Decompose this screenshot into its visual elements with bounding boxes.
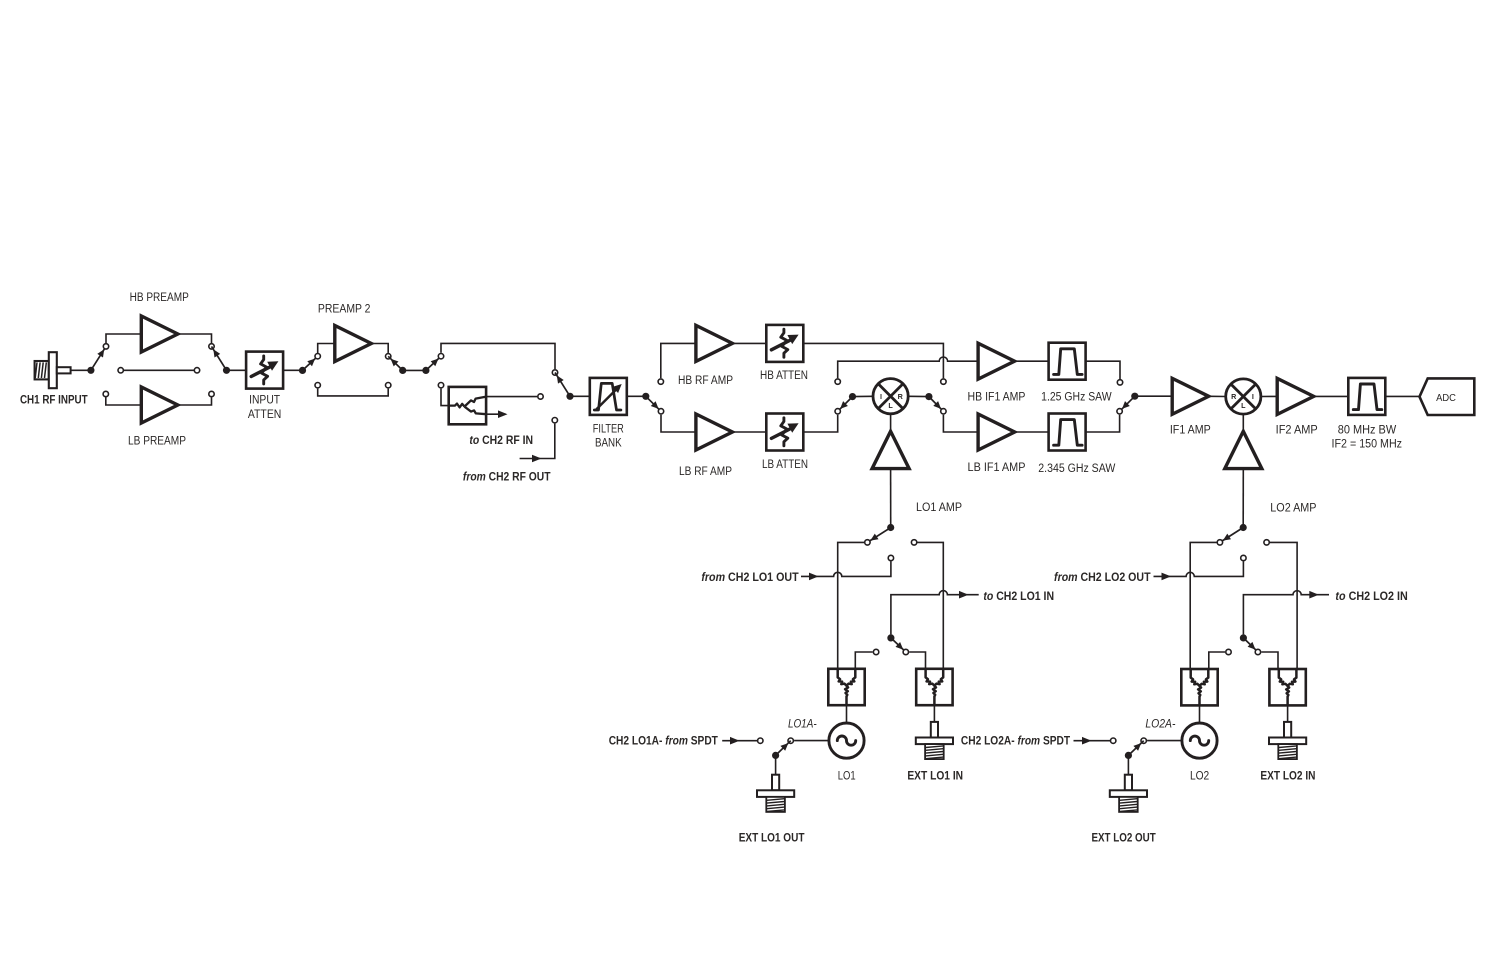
wire SW15 to S3 right port — [1209, 652, 1225, 669]
switch SW15 throw S4 — [1255, 649, 1260, 654]
amplifier LO2 AMP — [1225, 431, 1262, 468]
label 1.25 GHz SAW — [1041, 392, 1112, 404]
wire J14 to EXT LO1 OUT — [775, 755, 777, 775]
node J13 — [887, 634, 905, 652]
amplifier LO1 AMP — [872, 431, 909, 468]
wire IF2 AMP to IF2 filter — [1314, 395, 1348, 397]
wire MIX1 L port — [890, 414, 892, 432]
wire IF2 filter to ADC — [1385, 395, 1420, 397]
wire HB IF line to HB IF1 AMP — [838, 357, 979, 378]
svg-text:LB ATTEN: LB ATTEN — [762, 459, 808, 471]
node J3 — [299, 356, 318, 374]
wire top route to SW6 — [441, 343, 555, 369]
connector EXT LO2 OUT — [1110, 775, 1147, 812]
label FILTER BANK line1 — [593, 423, 624, 435]
wire coupler tap to CH2 RF IN — [486, 410, 507, 418]
label from CH2 LO1 OUT — [701, 572, 798, 584]
switch SW10 throw HB — [1117, 380, 1122, 385]
connector EXT LO1 OUT — [757, 775, 794, 812]
wire LB RF AMP to LB ATTEN — [732, 431, 766, 433]
label EXT LO1 IN — [907, 770, 963, 782]
label to CH2 LO1 IN — [983, 591, 1054, 603]
svg-text:CH2 LO1A- from SPDT: CH2 LO1A- from SPDT — [609, 736, 718, 748]
node J7 — [642, 393, 661, 412]
filter 1.25 GHz SAW — [1049, 343, 1086, 380]
wire SW1 bypass middle — [121, 369, 197, 371]
svg-text:from CH2 RF OUT: from CH2 RF OUT — [463, 471, 551, 483]
svg-text:INPUT: INPUT — [249, 394, 280, 406]
wire HB PREAMP output — [178, 334, 212, 343]
label CH2 LO2A- from SPDT — [961, 736, 1070, 748]
wire LB IF1 AMP to SAW2 — [1014, 431, 1049, 433]
wire to LB RF AMP — [661, 415, 696, 432]
wire J11 to IF1 AMP — [1135, 395, 1173, 397]
amplifier HB IF1 AMP — [978, 343, 1015, 379]
switch SW1 throw bypass — [118, 368, 123, 373]
mixer MIX1 — [873, 379, 908, 414]
svg-text:to CH2 LO2 IN: to CH2 LO2 IN — [1335, 591, 1407, 603]
wire SW15 to S4 left port — [1261, 652, 1278, 669]
switch SW13 throw CH2 — [758, 738, 763, 743]
label LB ATTEN — [762, 459, 808, 471]
svg-text:to CH2 RF IN: to CH2 RF IN — [469, 435, 533, 447]
node J5 — [422, 356, 441, 374]
svg-text:HB ATTEN: HB ATTEN — [760, 370, 808, 382]
switch SW1 throw HB — [103, 344, 108, 349]
svg-text:LB RF AMP: LB RF AMP — [679, 466, 732, 478]
svg-text:from CH2 LO2 OUT: from CH2 LO2 OUT — [1054, 572, 1151, 584]
wire SW11 to splitter S2 — [918, 542, 944, 669]
wire J6 to FILTER BANK — [570, 395, 590, 397]
svg-text:ADC: ADC — [1436, 393, 1456, 404]
switch SW14 throw CH2 — [1241, 555, 1246, 560]
switch SW12 throw S2 — [903, 649, 908, 654]
svg-text:L: L — [888, 401, 893, 410]
wire INPUT ATTEN to J3 — [283, 369, 302, 371]
wire HB ATTEN to mixer bypass — [803, 343, 943, 378]
switch SW3 bypass throw left — [315, 383, 320, 388]
wire PREAMP 2 output — [371, 344, 388, 353]
switch SW8 throw HB — [835, 379, 840, 384]
node J2 — [212, 346, 231, 374]
wire to HB RF AMP — [661, 343, 696, 378]
wire CH1 input to node J1 — [71, 369, 88, 371]
svg-text:IF2 = 150 MHz: IF2 = 150 MHz — [1332, 438, 1403, 450]
connector CH1 RF INPUT — [35, 352, 71, 388]
wire SAW1 to SW10 — [1085, 361, 1120, 379]
label CH1 RF INPUT — [20, 394, 88, 406]
label IF1 AMP — [1170, 425, 1211, 437]
splitter S3 — [1181, 669, 1217, 705]
wire FILTER BANK to J7 — [627, 395, 646, 397]
attenuator LB ATTEN — [766, 414, 803, 451]
switch SW5 throw coupler — [438, 383, 443, 388]
svg-text:I: I — [880, 392, 882, 401]
wire HB RF AMP to HB ATTEN — [732, 342, 766, 344]
node J12 — [1220, 524, 1247, 543]
node J9 — [925, 393, 943, 411]
node J16 — [1125, 741, 1144, 759]
switch SW13 throw LO1 — [788, 738, 793, 743]
wire from CH2 LO2 OUT — [1154, 561, 1244, 580]
wire SW9 to LB IF1 AMP — [943, 415, 978, 432]
node J8 — [838, 393, 856, 411]
switch SW16 throw CH2 — [1111, 738, 1116, 743]
label HB ATTEN — [760, 370, 808, 382]
switch SW16 throw LO2 — [1141, 738, 1146, 743]
wire PREAMP 2 bypass — [318, 389, 389, 396]
switch SW8 throw LB — [835, 409, 840, 414]
switch SW14 throw out — [1264, 540, 1269, 545]
svg-text:LO1: LO1 — [838, 770, 856, 782]
wire coupler top output — [486, 396, 537, 398]
wire S2 to EXT LO1 IN — [933, 705, 935, 722]
svg-text:80 MHz BW: 80 MHz BW — [1338, 424, 1397, 436]
svg-text:LO2 AMP: LO2 AMP — [1270, 502, 1317, 514]
oscillator LO1 — [829, 723, 864, 758]
wire SW12 to S1 right port — [855, 652, 872, 669]
wire CH2 LO1A- from SPDT — [722, 737, 760, 745]
svg-text:EXT LO1 IN: EXT LO1 IN — [907, 770, 963, 782]
label to CH2 RF IN — [469, 435, 533, 447]
svg-text:R: R — [1231, 392, 1237, 401]
switch SW15 throw S3 — [1226, 649, 1231, 654]
svg-text:HB IF1 AMP: HB IF1 AMP — [968, 392, 1026, 404]
svg-text:ATTEN: ATTEN — [248, 409, 282, 421]
label HB PREAMP — [130, 292, 189, 304]
node J11 — [1120, 393, 1139, 412]
node J10 — [867, 524, 894, 543]
node J15 — [1240, 634, 1258, 652]
wire LO1 to SW13 — [794, 740, 829, 742]
svg-text:1.25 GHz SAW: 1.25 GHz SAW — [1041, 392, 1112, 404]
svg-text:EXT LO1 OUT: EXT LO1 OUT — [739, 833, 805, 845]
wire IF1 AMP to MIX2 — [1209, 395, 1226, 397]
node J14 — [772, 741, 791, 759]
wire LO2 AMP to J12 — [1242, 469, 1244, 524]
svg-text:FILTER: FILTER — [593, 423, 624, 435]
wire LB ATTEN to SW8 — [803, 415, 838, 432]
amplifier LB IF1 AMP — [978, 414, 1015, 450]
switch SW6 throw CH2-return — [552, 418, 557, 423]
wire J8 to mixer MIX1 — [853, 395, 874, 397]
switch SW3 throw amp-in — [315, 354, 320, 359]
wire SW5 to coupler — [441, 389, 449, 406]
wire SW14 to splitter S3 — [1190, 542, 1216, 669]
svg-text:L: L — [1241, 401, 1246, 410]
svg-text:EXT LO2 IN: EXT LO2 IN — [1260, 771, 1315, 783]
label EXT LO1 OUT — [739, 833, 805, 845]
label LO2 AMP — [1270, 502, 1317, 514]
wire to PREAMP 2 input — [318, 344, 336, 357]
amplifier HB PREAMP — [141, 316, 178, 352]
switch SW7 throw HB — [658, 379, 663, 384]
switch SW4 throw amp-out — [386, 354, 391, 359]
connector EXT LO1 IN — [916, 722, 953, 759]
wire HB IF1 AMP to SAW1 — [1014, 360, 1049, 362]
svg-text:BANK: BANK — [595, 438, 622, 450]
switch SW2 throw bypass — [194, 368, 199, 373]
splitter S1 — [828, 669, 864, 705]
switch SW11 throw out — [911, 540, 916, 545]
attenuator HB ATTEN — [766, 325, 803, 362]
attenuator INPUT ATTEN — [246, 352, 283, 389]
wire J2 to INPUT ATTEN — [227, 369, 247, 371]
filter 80 MHz BW IF2 — [1348, 378, 1385, 415]
wire MIX2 L port — [1242, 414, 1244, 432]
label LO1 AMP — [916, 502, 962, 514]
svg-text:R: R — [898, 392, 904, 401]
converter ADC — [1420, 378, 1475, 415]
splitter S2 — [916, 669, 952, 705]
label LO2 — [1190, 770, 1209, 782]
label LB PREAMP — [128, 436, 186, 448]
switch SW9 throw LB — [941, 409, 946, 414]
wire SAW2 to SW10 — [1085, 415, 1119, 432]
label EXT LO2 OUT — [1091, 832, 1155, 844]
wire S1 to LO1 — [846, 705, 848, 723]
amplifier HB RF AMP — [696, 325, 733, 361]
amplifier LB RF AMP — [696, 414, 733, 450]
label 2.345 GHz SAW — [1038, 463, 1115, 475]
switch SW10 throw LB — [1117, 409, 1122, 414]
label HB IF1 AMP — [968, 392, 1026, 404]
wire MIX2 to IF2 AMP — [1261, 395, 1278, 397]
node J4 — [388, 356, 406, 374]
switch SW5 throw top-route — [438, 354, 443, 359]
amplifier PREAMP 2 — [335, 326, 372, 362]
wire CH2 LO2A- from SPDT — [1074, 737, 1114, 745]
svg-text:LO2: LO2 — [1190, 770, 1209, 782]
label from CH2 RF OUT — [463, 471, 551, 483]
label from CH2 LO2 OUT — [1054, 572, 1151, 584]
svg-text:I: I — [1252, 392, 1254, 401]
amplifier IF2 AMP — [1277, 378, 1314, 414]
switch SW12 throw S1 — [873, 649, 878, 654]
svg-text:LB IF1 AMP: LB IF1 AMP — [968, 462, 1026, 474]
svg-text:HB RF AMP: HB RF AMP — [678, 375, 733, 387]
amplifier LB PREAMP — [141, 387, 178, 423]
switch SW6 throw top-route — [552, 370, 557, 375]
wire SW1 to LB PREAMP — [106, 394, 142, 405]
wire SW1 to HB PREAMP — [106, 334, 142, 346]
label PREAMP 2 — [318, 304, 371, 316]
label LB RF AMP — [679, 466, 732, 478]
wire LB PREAMP output — [178, 397, 212, 405]
wire LO1 AMP to J10 — [890, 469, 892, 524]
connector EXT LO2 IN — [1269, 722, 1306, 759]
wire S4 to EXT LO2 IN — [1287, 705, 1289, 722]
svg-text:2.345 GHz SAW: 2.345 GHz SAW — [1038, 463, 1115, 475]
switch SW14 throw LO2 — [1217, 540, 1222, 545]
mixer MIX2 — [1226, 379, 1261, 414]
switch SW3 bypass throw right — [386, 383, 391, 388]
switch SW6 throw coupler — [538, 394, 543, 399]
wire LO2 to SW16 — [1147, 740, 1182, 742]
filter FILTER BANK — [590, 378, 627, 415]
switch SW11 throw LO1 — [865, 540, 870, 545]
label EXT LO2 IN — [1260, 771, 1315, 783]
wire SW11 to splitter S1 — [838, 542, 864, 669]
label IF2 = 150 MHz — [1332, 438, 1403, 450]
label to CH2 LO2 IN — [1335, 591, 1407, 603]
amplifier IF1 AMP — [1172, 378, 1209, 414]
node J1 — [87, 346, 106, 374]
label FILTER BANK line2 — [595, 438, 622, 450]
wire SW12 to S2 left port — [909, 652, 925, 669]
switch SW7 throw LB — [658, 409, 663, 414]
oscillator LO2 — [1182, 723, 1217, 758]
svg-text:IF1 AMP: IF1 AMP — [1170, 425, 1211, 437]
svg-text:EXT LO2 OUT: EXT LO2 OUT — [1091, 832, 1155, 844]
wire from CH2 LO1 OUT — [801, 561, 891, 580]
switch SW9 throw HB — [941, 379, 946, 384]
filter 2.345 GHz SAW — [1049, 414, 1086, 451]
svg-text:LO1A-: LO1A- — [788, 718, 817, 730]
wire S3 to LO2 — [1199, 705, 1201, 723]
svg-text:from CH2 LO1 OUT: from CH2 LO1 OUT — [701, 572, 798, 584]
svg-text:IF2 AMP: IF2 AMP — [1276, 425, 1318, 437]
label INPUT ATTEN line1 — [249, 394, 280, 406]
wire to CH2 LO1 IN — [891, 591, 979, 635]
svg-text:CH1 RF INPUT: CH1 RF INPUT — [20, 394, 88, 406]
label LO2A- — [1145, 719, 1175, 731]
switch SW1 throw LB — [103, 391, 108, 396]
splitter S4 — [1269, 669, 1305, 705]
label LO1 — [838, 770, 856, 782]
node J6 — [555, 373, 574, 400]
label LB IF1 AMP — [968, 462, 1026, 474]
svg-text:CH2 LO2A- from SPDT: CH2 LO2A- from SPDT — [961, 736, 1070, 748]
svg-text:LO1 AMP: LO1 AMP — [916, 502, 962, 514]
svg-text:HB PREAMP: HB PREAMP — [130, 292, 189, 304]
label LO1A- — [788, 718, 817, 730]
wire from CH2 RF OUT — [520, 424, 555, 463]
wire to CH2 LO2 IN — [1243, 591, 1329, 635]
label IF2 AMP — [1276, 425, 1318, 437]
label HB RF AMP — [678, 375, 733, 387]
svg-text:LO2A-: LO2A- — [1145, 719, 1175, 731]
splitter coupler to CH2 — [449, 387, 487, 424]
svg-text:LB PREAMP: LB PREAMP — [128, 436, 186, 448]
svg-text:PREAMP 2: PREAMP 2 — [318, 304, 371, 316]
wire J16 to EXT LO2 OUT — [1127, 755, 1129, 775]
svg-text:to CH2 LO1 IN: to CH2 LO1 IN — [983, 591, 1054, 603]
wire MIX1 to J9 — [908, 395, 929, 397]
label CH2 LO1A- from SPDT — [609, 736, 718, 748]
wire J4 to J5 — [403, 369, 426, 371]
switch SW2 throw HB — [209, 344, 214, 349]
switch SW2 throw LB — [209, 391, 214, 396]
label INPUT ATTEN line2 — [248, 409, 282, 421]
label 80 MHz BW — [1338, 424, 1397, 436]
switch SW11 throw CH2 — [888, 555, 893, 560]
wire SW14 to splitter S4 — [1270, 542, 1297, 669]
